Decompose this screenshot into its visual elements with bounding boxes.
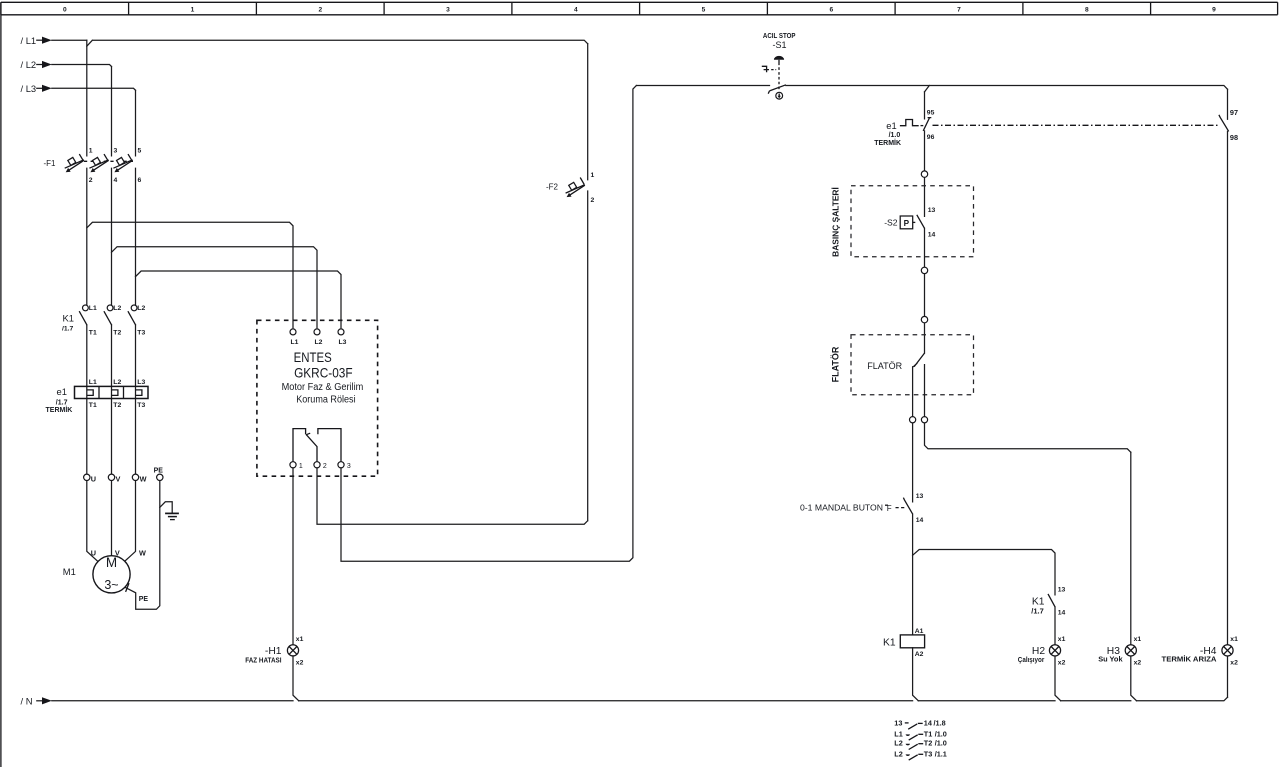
svg-text:/1.8: /1.8	[934, 718, 946, 727]
svg-text:/1.7: /1.7	[56, 400, 68, 407]
svg-text:A2: A2	[915, 651, 924, 658]
wire branch kink to aux contact	[913, 550, 1055, 595]
wire L2 row	[52, 65, 112, 67]
wire N line	[52, 697, 1228, 701]
svg-text:x1: x1	[1230, 636, 1238, 643]
svg-text:e1: e1	[57, 386, 67, 397]
contactor K1 main contact pole 2	[104, 305, 113, 325]
svg-text:L2: L2	[315, 339, 323, 346]
svg-text:V: V	[115, 548, 120, 557]
svg-text:98: 98	[1230, 133, 1238, 142]
svg-text:e1: e1	[886, 120, 896, 131]
wire H1 to N	[293, 656, 299, 701]
pressure switch enclosure box	[851, 186, 974, 257]
relay input pin L2	[314, 329, 320, 335]
svg-text:L2: L2	[113, 379, 121, 386]
svg-text:T2: T2	[924, 739, 933, 748]
ground branch wire	[160, 502, 172, 513]
svg-text:x2: x2	[1058, 660, 1066, 667]
svg-text:K1: K1	[883, 638, 896, 649]
terminal PE	[157, 474, 163, 480]
wire relay pin 1 to lamp H1	[292, 468, 294, 645]
svg-text:FLATÖR: FLATÖR	[867, 361, 902, 371]
svg-text:x1: x1	[1058, 636, 1066, 643]
relay input pin labels	[291, 339, 347, 346]
svg-text:14: 14	[924, 718, 933, 727]
svg-text:M1: M1	[63, 566, 76, 577]
wire float left output	[912, 367, 914, 502]
float switch changeover contact	[913, 353, 924, 367]
svg-text:13: 13	[894, 718, 902, 727]
svg-text:T3: T3	[137, 402, 145, 409]
svg-text:FLATÖR: FLATÖR	[831, 346, 841, 382]
F1 pin numbers	[89, 147, 142, 184]
svg-text:T2: T2	[113, 329, 121, 336]
wire relay pin 3 to control circuit	[341, 86, 636, 562]
svg-text:14: 14	[928, 232, 936, 239]
svg-text:13: 13	[916, 493, 924, 500]
RULER	[1, 2, 1278, 15]
motor M1	[93, 555, 130, 593]
wire button to coil	[912, 514, 914, 635]
K1 cross reference table row L1-T1	[894, 729, 947, 740]
float switch enclosure box	[851, 335, 974, 395]
svg-text:5: 5	[702, 7, 706, 14]
svg-text:L1: L1	[894, 729, 903, 738]
svg-text:P: P	[904, 219, 910, 228]
svg-text:T1: T1	[924, 729, 933, 738]
relay changeover contact	[293, 429, 341, 462]
relay input pin L3	[338, 329, 344, 335]
junction terminal circle b	[921, 267, 927, 273]
svg-text:1: 1	[299, 463, 303, 470]
svg-text:L2: L2	[113, 305, 121, 312]
svg-text:L1: L1	[291, 339, 299, 346]
svg-text:PE: PE	[154, 468, 164, 475]
svg-text:x2: x2	[1230, 660, 1238, 667]
svg-text:2: 2	[318, 7, 322, 14]
wire H4 feed vertical	[1227, 89, 1229, 697]
terminal V	[108, 474, 114, 480]
svg-text:x2: x2	[1134, 660, 1142, 667]
lamp H2	[1018, 636, 1066, 667]
junction terminal circle e	[921, 417, 927, 423]
svg-text:6: 6	[138, 177, 142, 184]
contactor coil K1	[883, 628, 925, 658]
wire aux to H2	[1055, 607, 1061, 701]
svg-text:L3: L3	[137, 379, 145, 386]
svg-text:BASINÇ ŞALTERİ: BASINÇ ŞALTERİ	[831, 187, 841, 257]
svg-text:-S1: -S1	[772, 40, 786, 50]
svg-text:L2: L2	[894, 739, 903, 748]
e1 pin labels	[89, 379, 146, 409]
svg-text:-S2: -S2	[884, 217, 898, 227]
wire phase A vertical	[87, 40, 98, 561]
svg-text:4: 4	[574, 7, 578, 14]
svg-text:3: 3	[347, 463, 351, 470]
svg-text:A1: A1	[915, 628, 924, 635]
svg-text:95: 95	[927, 109, 935, 116]
relay input pin L1	[290, 329, 296, 335]
svg-text:L2: L2	[894, 749, 903, 758]
ground	[165, 513, 179, 519]
wire branch L3 to relay	[136, 271, 342, 328]
junction terminal circle a	[921, 171, 927, 177]
aux contact K1 13-14	[1031, 587, 1065, 617]
wire coil to N	[913, 648, 919, 701]
wire control branch vertical upper	[924, 92, 926, 353]
svg-text:U: U	[91, 474, 96, 483]
svg-text:14: 14	[916, 517, 924, 524]
contactor K1 main contact pole 1	[79, 305, 88, 325]
node N feed	[21, 695, 52, 706]
svg-text:L1: L1	[89, 305, 97, 312]
contactor K1 main contact pole 3	[128, 305, 137, 325]
svg-text:6: 6	[829, 7, 833, 14]
svg-text:TERMİK ARIZA: TERMİK ARIZA	[1162, 655, 1218, 664]
svg-text:3~: 3~	[104, 578, 118, 592]
svg-text:14: 14	[1058, 610, 1066, 617]
relay output pin 1	[290, 462, 296, 468]
svg-text:PE: PE	[139, 596, 149, 603]
svg-text:1: 1	[191, 7, 195, 14]
wire control top line left of S1	[636, 85, 769, 87]
junction terminal circle c	[921, 316, 927, 322]
node L1 feed	[21, 35, 52, 46]
svg-text:FAZ HATASI: FAZ HATASI	[245, 656, 281, 665]
svg-text:1: 1	[591, 172, 595, 179]
svg-text:/ L3: / L3	[21, 83, 37, 94]
svg-text:2: 2	[323, 463, 327, 470]
svg-text:Motor Faz & Gerilim: Motor Faz & Gerilim	[282, 382, 364, 393]
svg-text:13: 13	[928, 207, 936, 214]
wire to H3	[1131, 452, 1137, 701]
phase protection relay U2 ENTES GKRC-03F box	[257, 320, 378, 476]
svg-text:T1: T1	[89, 402, 97, 409]
wire phase C vertical	[125, 90, 136, 561]
svg-text:-F2: -F2	[546, 183, 559, 192]
svg-text:x1: x1	[296, 636, 304, 643]
svg-text:U: U	[91, 548, 96, 557]
svg-text:x2: x2	[296, 660, 304, 667]
terminal U	[84, 474, 90, 480]
relay output pin labels	[299, 463, 351, 470]
svg-text:3: 3	[114, 147, 118, 154]
svg-text:2: 2	[89, 177, 93, 184]
svg-text:T2: T2	[113, 402, 121, 409]
svg-text:W: W	[140, 474, 147, 483]
svg-text:T1: T1	[89, 329, 97, 336]
pressure switch S2	[884, 207, 935, 239]
fuse F2	[566, 178, 585, 198]
svg-text:L2: L2	[137, 305, 145, 312]
PE slash mark	[126, 583, 129, 592]
svg-text:-F1: -F1	[44, 159, 57, 168]
svg-text:K1: K1	[63, 313, 74, 324]
svg-text:/ L1: / L1	[21, 35, 37, 46]
svg-text:/1.0: /1.0	[889, 132, 901, 139]
terminal W	[132, 474, 138, 480]
svg-text:/ N: / N	[21, 695, 33, 706]
e1 thermal symbol and label	[874, 120, 923, 148]
svg-text:/1.7: /1.7	[1031, 607, 1044, 616]
svg-text:Çalışıyor: Çalışıyor	[1018, 655, 1045, 664]
breaker F1 mechanical link	[84, 160, 133, 162]
page left border	[0, 2, 2, 767]
wire PE down	[125, 481, 160, 610]
svg-text:97: 97	[1230, 108, 1238, 117]
wire L3 row	[52, 88, 136, 90]
node L3 feed	[21, 83, 52, 94]
svg-text:1: 1	[89, 147, 93, 154]
breaker F1 pole 1	[65, 154, 84, 172]
wire branch L1 to relay	[87, 222, 293, 327]
breaker F1 pole 2	[89, 154, 108, 172]
wire control top line right of S1	[786, 86, 1228, 90]
thermal overload e1 box	[75, 386, 149, 398]
thermal NC contact e1 95-96	[923, 109, 934, 141]
svg-text:Su Yok: Su Yok	[1098, 655, 1123, 664]
svg-text:TERMİK: TERMİK	[874, 139, 901, 147]
wire junction kink at control branch	[925, 86, 930, 92]
svg-text:W: W	[139, 548, 146, 557]
svg-text:/1.1: /1.1	[935, 749, 947, 758]
svg-text:0-1 MANDAL BUTON: 0-1 MANDAL BUTON	[800, 503, 883, 512]
svg-text:/1.0: /1.0	[935, 729, 947, 738]
svg-text:5: 5	[138, 147, 142, 154]
svg-text:/1.7: /1.7	[62, 326, 74, 333]
relay output pin 2	[314, 462, 320, 468]
svg-text:L3: L3	[339, 339, 347, 346]
svg-text:4: 4	[114, 177, 118, 184]
svg-text:L1: L1	[89, 379, 97, 386]
svg-text:13: 13	[1058, 587, 1066, 594]
lamp H4	[1162, 636, 1239, 667]
node L2 feed	[21, 59, 52, 70]
svg-text:T3: T3	[137, 329, 145, 336]
svg-text:9: 9	[1212, 7, 1216, 14]
wire L1 row	[52, 40, 588, 46]
svg-text:/ L2: / L2	[21, 59, 37, 70]
button 0-1 MANDAL BUTON	[800, 493, 923, 524]
breaker F1 pole 3	[113, 154, 132, 172]
svg-text:TERMİK: TERMİK	[46, 406, 73, 414]
wire float right output	[925, 365, 1131, 453]
motor terminal labels	[91, 548, 146, 557]
svg-text:V: V	[116, 474, 121, 483]
wire branch L2 to relay	[112, 247, 318, 328]
lamp H1	[245, 636, 303, 667]
mechanical link dash-dot line	[933, 124, 1219, 126]
svg-text:ENTES: ENTES	[294, 349, 332, 365]
svg-text:3: 3	[446, 7, 450, 14]
svg-text:0: 0	[63, 7, 67, 14]
lamp H3	[1098, 636, 1141, 667]
K1 cross reference table row 13-14	[894, 718, 945, 729]
svg-text:96: 96	[927, 134, 935, 141]
thermal NO contact 97-98	[1219, 108, 1238, 142]
svg-text:GKRC-03F: GKRC-03F	[294, 364, 353, 380]
svg-text:Koruma Rölesi: Koruma Rölesi	[296, 394, 355, 405]
svg-text:7: 7	[957, 7, 961, 14]
svg-text:x1: x1	[1134, 636, 1142, 643]
svg-text:2: 2	[591, 197, 595, 204]
K1 contact pin labels	[89, 305, 146, 336]
wire phase B vertical	[111, 67, 113, 556]
svg-text:/1.0: /1.0	[935, 739, 947, 748]
svg-text:T3: T3	[924, 749, 933, 758]
K1 cross reference table row L2-T2	[894, 739, 947, 750]
K1 cross reference table row L2-T3	[894, 749, 947, 760]
relay output pin 3	[338, 462, 344, 468]
emergency stop S1	[762, 31, 796, 99]
svg-text:8: 8	[1085, 7, 1089, 14]
wire F2 vertical and to relay pin 2	[317, 44, 588, 525]
junction terminal circle d	[910, 417, 916, 423]
